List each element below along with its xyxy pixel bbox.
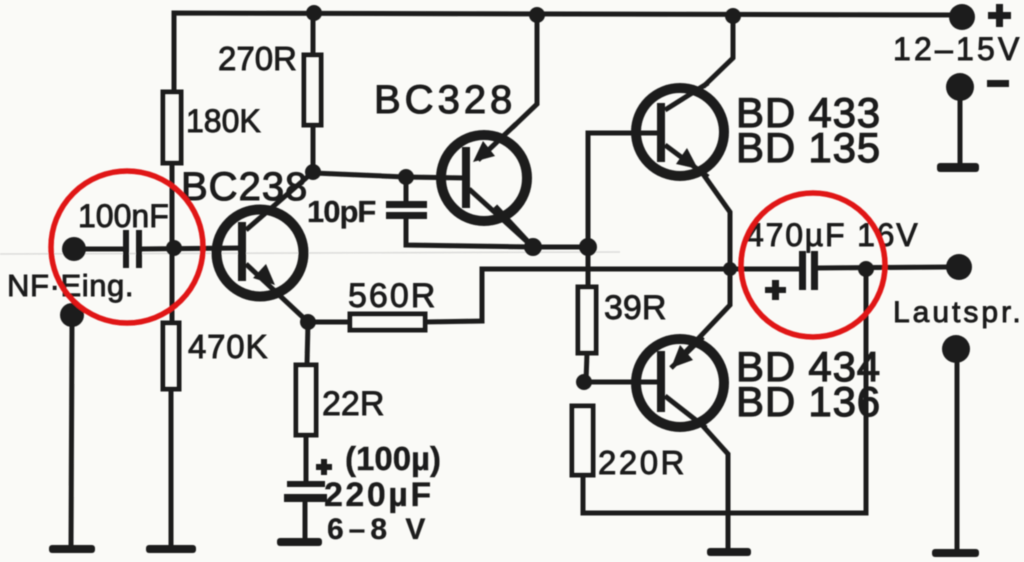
svg-text:BD 135: BD 135 [736,124,881,171]
svg-text:Lautspr.: Lautspr. [893,296,1024,329]
svg-text:22R: 22R [322,385,384,423]
svg-text:220µF: 220µF [324,476,434,514]
svg-text:10pF: 10pF [307,194,375,229]
svg-text:100nF: 100nF [78,198,169,234]
svg-text:470K: 470K [188,328,268,365]
svg-text:(100µ): (100µ) [345,440,441,477]
svg-text:220R: 220R [598,444,687,481]
svg-text:560R: 560R [348,277,437,315]
svg-text:BC238: BC238 [181,165,308,209]
svg-text:BD 136: BD 136 [736,378,881,425]
svg-text:6–8 V: 6–8 V [327,513,430,546]
svg-text:39R: 39R [604,289,666,327]
svg-text:12–15V: 12–15V [893,31,1023,67]
svg-text:470µF 16V: 470µF 16V [746,217,919,253]
svg-text:270R: 270R [218,40,297,77]
svg-text:180K: 180K [186,103,261,139]
svg-text:BC328: BC328 [374,78,516,122]
